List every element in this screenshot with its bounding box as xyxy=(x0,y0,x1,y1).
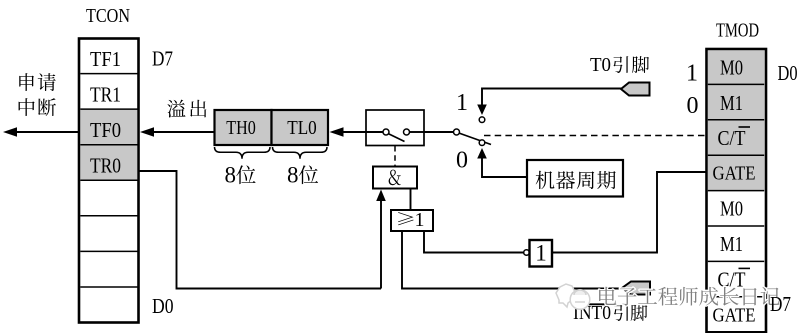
dashed wire: switch box to AND gate xyxy=(394,146,396,166)
svg-text:GATE: GATE xyxy=(713,304,756,326)
svg-text:C/T: C/T xyxy=(718,126,746,150)
svg-text:TMOD: TMOD xyxy=(716,20,759,42)
TCON cell TF0 shading xyxy=(80,109,137,145)
brace under TH0 xyxy=(215,147,271,159)
wire: T0 pin to contact 1 xyxy=(482,89,622,107)
text 申请中断 xyxy=(19,73,56,116)
svg-text:1: 1 xyxy=(456,90,468,116)
switch contact circle left xyxy=(383,129,389,135)
svg-text:T0: T0 xyxy=(590,54,611,76)
arrowhead into AND gate xyxy=(376,190,386,202)
svg-text:1: 1 xyxy=(686,61,698,87)
svg-text:D0: D0 xyxy=(152,294,174,318)
dashed wire: C/T bit to switch xyxy=(484,135,706,137)
svg-text:1: 1 xyxy=(535,241,547,266)
svg-text:8: 8 xyxy=(225,163,237,188)
svg-text:0: 0 xyxy=(456,148,468,174)
C/T switch arm xyxy=(459,133,491,145)
register TMOD outline xyxy=(707,49,767,332)
wire: machine cycle to contact 0 xyxy=(482,151,527,177)
wire inside switch box left xyxy=(366,131,383,133)
pivot contact circle xyxy=(454,129,460,135)
switch contact circle right xyxy=(404,129,410,135)
label INT0引脚 with overline xyxy=(573,302,647,324)
arrowhead into TCON xyxy=(140,127,154,137)
brace under TL0 xyxy=(273,147,328,159)
arrowhead into TL0 xyxy=(330,127,344,137)
svg-text:TR1: TR1 xyxy=(90,83,121,107)
contact circle 1 (T0) xyxy=(479,117,485,123)
svg-text:GATE: GATE xyxy=(713,163,756,185)
arrowhead up to contact 0 xyxy=(477,148,487,159)
wire: OR gate output to AND gate xyxy=(410,189,412,211)
wire: INT0 pin to OR gate xyxy=(402,231,621,289)
svg-text:D0: D0 xyxy=(778,61,798,85)
arrowhead down to contact 1 xyxy=(477,105,487,116)
svg-text:1: 1 xyxy=(415,209,425,231)
wire: NOT gate to OR gate xyxy=(424,231,524,253)
wire: TR0 to AND gate (arrow) xyxy=(380,196,382,289)
bit label C/T (low) xyxy=(718,126,751,150)
svg-text:C/T: C/T xyxy=(718,267,746,291)
svg-text:TR0: TR0 xyxy=(90,154,121,178)
INT0 pin flag xyxy=(622,282,650,295)
register TH0 xyxy=(215,110,272,145)
wire: overflow from TH0 into TCON xyxy=(146,131,214,133)
svg-text:TL0: TL0 xyxy=(287,118,317,139)
svg-text:D7: D7 xyxy=(152,47,173,71)
watermark text 电子工程师成长日记 xyxy=(599,287,779,306)
TMOD cell dividers xyxy=(708,84,764,296)
wire: switch box to TL0 xyxy=(335,131,366,133)
text 机器周期 xyxy=(536,171,616,189)
NOT gate bubble xyxy=(524,250,530,256)
svg-text:D7: D7 xyxy=(770,292,791,316)
label 8位 (TL0) xyxy=(287,163,318,188)
svg-text:M1: M1 xyxy=(720,91,743,115)
wire: switch box to pivot xyxy=(424,131,453,133)
TCON cell TR0 shading xyxy=(80,145,137,181)
register TCON outline xyxy=(79,39,139,323)
svg-text:TCON: TCON xyxy=(86,5,130,27)
svg-text:M0: M0 xyxy=(720,56,743,80)
svg-text:TH0: TH0 xyxy=(226,118,256,139)
contact circle 0 (machine cycle) xyxy=(479,140,485,146)
register TL0 xyxy=(272,110,329,145)
AND gate xyxy=(373,167,417,189)
label T0引脚 xyxy=(590,54,649,76)
svg-text:M1: M1 xyxy=(720,232,743,256)
text 溢出 xyxy=(167,100,206,118)
arrowhead left xyxy=(3,127,17,137)
wire: GATE to NOT gate xyxy=(553,172,706,253)
OR gate >=1 xyxy=(391,209,433,231)
T0 pin flag xyxy=(621,83,650,96)
wire: TR0 to AND gate input xyxy=(139,171,382,289)
TMOD gray cells xyxy=(708,50,765,190)
switch box xyxy=(366,110,424,146)
wire: interrupt request arrow from TF0 xyxy=(14,131,79,133)
svg-text:M0: M0 xyxy=(720,197,743,221)
svg-text:0: 0 xyxy=(687,93,699,119)
watermark logo xyxy=(556,284,590,309)
svg-text:TF1: TF1 xyxy=(90,47,121,71)
switch arm inside box xyxy=(388,134,405,142)
box 机器周期 xyxy=(527,160,623,197)
NOT gate box 1 xyxy=(530,240,553,267)
label 8位 (TH0) xyxy=(225,163,256,188)
bit label C/T (high) xyxy=(718,267,751,291)
wire inside switch box right xyxy=(410,131,425,133)
svg-text:8: 8 xyxy=(287,163,299,188)
svg-text:TF0: TF0 xyxy=(90,118,121,142)
TCON cell dividers xyxy=(80,74,137,287)
